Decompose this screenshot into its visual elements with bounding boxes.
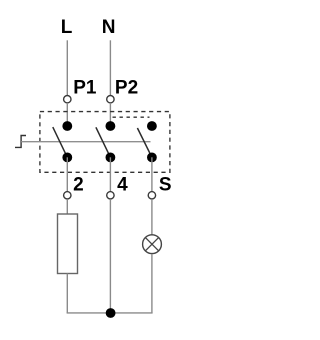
svg-text:P1: P1 [73, 78, 97, 99]
svg-text:P2: P2 [115, 78, 138, 99]
svg-text:N: N [102, 17, 116, 38]
svg-text:4: 4 [117, 175, 128, 196]
svg-text:2: 2 [73, 175, 84, 196]
svg-text:S: S [159, 175, 172, 196]
svg-text:L: L [61, 17, 73, 38]
